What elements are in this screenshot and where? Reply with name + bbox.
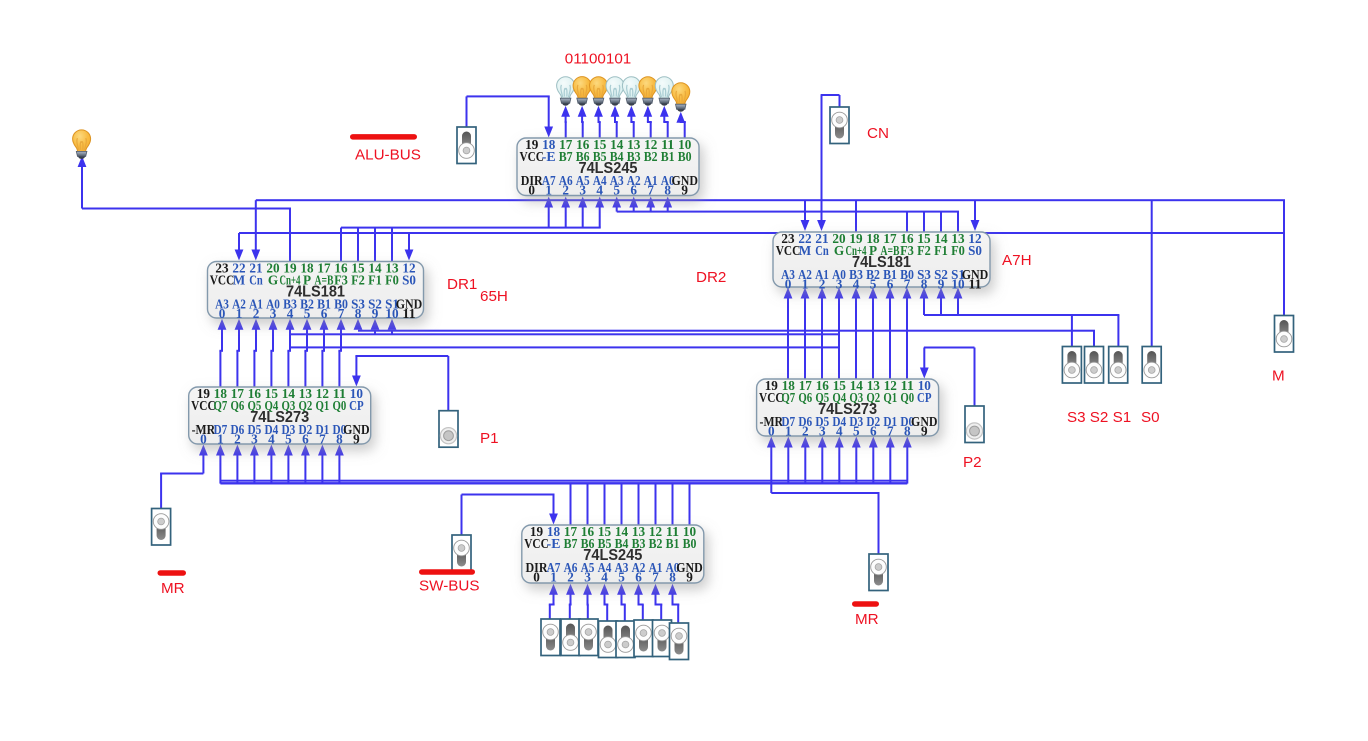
wire DR2 F outputs to U1 A3-A0 (rail y=212): [612, 197, 959, 233]
switch K3 data bit: [616, 621, 635, 658]
svg-text:VCC: VCC: [191, 398, 216, 413]
svg-text:VCC: VCC: [519, 149, 544, 164]
svg-text:S0: S0: [402, 273, 416, 288]
label S0: [1141, 409, 1160, 426]
svg-text:3: 3: [819, 423, 826, 438]
svg-text:4: 4: [836, 423, 843, 438]
svg-text:9: 9: [353, 431, 360, 446]
chip DR1 74LS181 ALU high nibble: [208, 261, 424, 321]
svg-text:Q7: Q7: [214, 398, 228, 413]
svg-text:7: 7: [887, 423, 894, 438]
svg-text:5: 5: [853, 423, 860, 438]
label DR2: [696, 269, 726, 286]
svg-text:Q7: Q7: [781, 390, 795, 405]
wire P2 button to CP: [920, 347, 976, 407]
svg-text:Cn: Cn: [815, 243, 829, 258]
wire carry bulb feed: [78, 156, 291, 262]
svg-text:9: 9: [372, 306, 379, 321]
svg-text:8: 8: [664, 182, 671, 197]
svg-text:M: M: [1272, 368, 1285, 385]
label CN: [867, 125, 889, 142]
wire rail y=347.5: [291, 346, 840, 348]
label M: [1272, 368, 1285, 385]
svg-text:2: 2: [802, 423, 809, 438]
svg-text:B0: B0: [683, 536, 697, 551]
svg-text:1: 1: [236, 306, 243, 321]
svg-text:3: 3: [584, 569, 591, 584]
svg-text:6: 6: [870, 423, 877, 438]
svg-text:8: 8: [904, 423, 911, 438]
svg-text:B2: B2: [649, 536, 663, 551]
wire data switches to U2 A inputs: [549, 584, 680, 623]
switch K2 data bit: [634, 620, 653, 657]
switch S1: [1109, 347, 1128, 384]
svg-text:3: 3: [251, 431, 258, 446]
svg-text:01100101: 01100101: [565, 51, 631, 68]
bulb carry indicator (lit): [73, 130, 91, 159]
svg-text:4: 4: [287, 306, 294, 321]
bulb B0 (on): [672, 83, 690, 112]
svg-text:74LS181: 74LS181: [852, 254, 911, 271]
svg-text:S0: S0: [968, 243, 982, 258]
svg-text:0: 0: [768, 423, 775, 438]
svg-text:74LS273: 74LS273: [250, 409, 309, 426]
svg-text:ALU-BUS: ALU-BUS: [355, 147, 421, 164]
bulb B6 (on): [573, 77, 591, 106]
switch K0 data bit: [670, 623, 689, 660]
wire bus to P1 D inputs: [216, 445, 344, 484]
svg-text:B1: B1: [661, 149, 675, 164]
wire P1 Q outputs to DR1 A,B inputs: [218, 319, 346, 387]
wire M switch riser: [1283, 200, 1285, 315]
switch MR1 master reset P1: [152, 509, 171, 546]
svg-text:Q0: Q0: [333, 398, 347, 413]
svg-text:1: 1: [217, 431, 224, 446]
svg-text:7: 7: [319, 431, 326, 446]
wire SW-BUS switch to U2 -E: [461, 494, 558, 536]
svg-text:CN: CN: [867, 125, 889, 142]
svg-text:MR: MR: [161, 580, 185, 597]
svg-text:7: 7: [904, 276, 911, 291]
svg-text:9: 9: [681, 182, 688, 197]
svg-text:G: G: [834, 243, 844, 258]
label S3 S2 S1: [1067, 409, 1131, 426]
chip P2 74LS273 register: [757, 378, 939, 438]
switch S2: [1085, 347, 1104, 384]
svg-text:S0: S0: [1141, 409, 1160, 426]
chip DR2 74LS181 ALU low nibble: [773, 231, 990, 291]
label DR1: [447, 276, 477, 293]
chip U1 74LS245 ALU bus driver: [517, 137, 699, 197]
svg-text:0: 0: [528, 182, 535, 197]
label SW-BUS with marker: [419, 569, 479, 594]
svg-text:74LS245: 74LS245: [579, 160, 638, 177]
svg-text:F0: F0: [951, 243, 965, 258]
svg-text:DR1: DR1: [447, 276, 477, 293]
svg-text:CP: CP: [917, 390, 932, 405]
wire U1 B outputs to indicator bulbs: [561, 106, 686, 138]
bulb B7 (off): [557, 77, 575, 106]
svg-text:7: 7: [647, 182, 654, 197]
svg-text:VCC: VCC: [759, 390, 784, 405]
svg-text:8: 8: [669, 569, 676, 584]
svg-text:6: 6: [302, 431, 309, 446]
svg-text:B0: B0: [678, 149, 692, 164]
svg-text:5: 5: [613, 182, 620, 197]
label 01100101 bus value: [565, 51, 631, 68]
svg-text:DR2: DR2: [696, 269, 726, 286]
svg-text:A7H: A7H: [1002, 252, 1032, 269]
bulb B3 (off): [622, 77, 640, 106]
wire bus to P2 D inputs: [784, 437, 912, 484]
svg-text:2: 2: [819, 276, 826, 291]
wire U2 B outputs to bus: [570, 484, 691, 525]
svg-text:VCC: VCC: [210, 273, 235, 288]
svg-text:5: 5: [285, 431, 292, 446]
bulb B1 (off): [655, 77, 673, 106]
svg-text:9: 9: [938, 276, 945, 291]
svg-text:4: 4: [596, 182, 603, 197]
label MR2 with marker: [852, 601, 879, 628]
svg-text:3: 3: [579, 182, 586, 197]
svg-text:VCC: VCC: [776, 243, 801, 258]
wire DR1 pin21 Cn drop: [251, 200, 260, 260]
bulb B5 (on): [590, 77, 608, 106]
chip U2 74LS245 switch bus driver: [522, 524, 704, 584]
svg-text:B7: B7: [559, 149, 573, 164]
switch K7 data bit: [541, 619, 560, 656]
svg-text:2: 2: [253, 306, 260, 321]
svg-text:VCC: VCC: [524, 536, 549, 551]
wire DR2 pin12 S0 drop: [971, 200, 980, 231]
svg-text:6: 6: [321, 306, 328, 321]
switch K1 data bit: [653, 620, 672, 657]
svg-text:9: 9: [921, 423, 928, 438]
switch S3: [1062, 347, 1081, 384]
svg-text:11: 11: [968, 276, 981, 291]
svg-text:3: 3: [270, 306, 277, 321]
wire DR2 pin19 Cn+4 riser: [855, 200, 857, 232]
switch S0: [1142, 347, 1161, 384]
svg-text:G: G: [268, 273, 278, 288]
svg-text:11: 11: [402, 306, 415, 321]
label P2: [963, 454, 982, 471]
svg-text:B7: B7: [564, 536, 578, 551]
switch K5 data bit: [579, 619, 598, 656]
svg-text:2: 2: [562, 182, 569, 197]
svg-text:S3 S2 S1: S3 S2 S1: [1067, 409, 1131, 426]
svg-text:10: 10: [385, 306, 399, 321]
svg-text:Q6: Q6: [798, 390, 812, 405]
svg-text:F0: F0: [385, 273, 399, 288]
wire DR2 S3,S2,S1 rail y=315 to switches: [920, 288, 1120, 347]
svg-text:74LS273: 74LS273: [818, 401, 877, 418]
svg-text:0: 0: [533, 569, 540, 584]
label ALU-BUS with marker: [350, 134, 421, 163]
svg-text:M: M: [233, 273, 246, 288]
svg-text:5: 5: [870, 276, 877, 291]
svg-text:1: 1: [802, 276, 809, 291]
svg-text:-E: -E: [542, 149, 556, 164]
svg-text:-E: -E: [547, 536, 561, 551]
wire MR switch to P1 -MR: [160, 445, 208, 509]
label P1: [480, 430, 499, 447]
svg-text:P2: P2: [963, 454, 982, 471]
svg-text:8: 8: [355, 306, 362, 321]
svg-text:7: 7: [652, 569, 659, 584]
svg-text:5: 5: [304, 306, 311, 321]
chip P1 74LS273 register: [189, 386, 371, 446]
svg-text:F1: F1: [368, 273, 382, 288]
svg-text:B2: B2: [644, 149, 658, 164]
svg-text:Cn: Cn: [249, 273, 263, 288]
wire rail y=336.5 DR1 S1: [388, 319, 397, 335]
svg-text:2: 2: [567, 569, 574, 584]
svg-text:74LS181: 74LS181: [286, 284, 345, 301]
wire DR1 F outputs to U1 A7-A4 (rail y=228): [340, 197, 604, 262]
switch CN carry-in: [830, 107, 849, 144]
svg-text:1: 1: [545, 182, 552, 197]
svg-text:0: 0: [200, 431, 207, 446]
svg-text:1: 1: [550, 569, 557, 584]
svg-text:8: 8: [336, 431, 343, 446]
switch ALU-BUS enable: [457, 127, 476, 164]
wire MR switch to P2 -MR: [767, 437, 880, 555]
bulb B2 (on): [639, 77, 657, 106]
wire ALU-BUS switch to U1 -E: [466, 95, 554, 137]
switch K6 data bit: [561, 619, 580, 656]
svg-text:Q0: Q0: [900, 390, 914, 405]
svg-text:74LS245: 74LS245: [583, 547, 642, 564]
svg-text:MR: MR: [855, 611, 879, 628]
svg-text:8: 8: [921, 276, 928, 291]
wire rail y=233: [239, 232, 1285, 234]
wire P1 button to CP: [352, 355, 449, 411]
wire data bus rail (double): [220, 480, 907, 485]
svg-text:5: 5: [618, 569, 625, 584]
svg-text:F2: F2: [351, 273, 365, 288]
svg-text:9: 9: [686, 569, 693, 584]
svg-text:7: 7: [338, 306, 345, 321]
svg-text:4: 4: [601, 569, 608, 584]
svg-text:F2: F2: [917, 243, 931, 258]
switch MR2 master reset P2: [869, 554, 888, 591]
svg-text:10: 10: [951, 276, 965, 291]
switch M mode: [1275, 316, 1294, 353]
wire rail y=334 DR1 S2: [290, 319, 840, 336]
wire rail y=331 DR1 S3 to S2 switch: [354, 319, 1095, 347]
svg-text:4: 4: [853, 276, 860, 291]
wire DR1 pin12 S0 drop: [405, 233, 414, 261]
svg-text:F1: F1: [934, 243, 948, 258]
svg-text:65H: 65H: [480, 288, 508, 305]
svg-text:1: 1: [785, 423, 792, 438]
svg-text:2: 2: [234, 431, 241, 446]
wire S0 switch riser: [1151, 200, 1153, 346]
wire CN switch hook: [817, 94, 840, 231]
switch SW-BUS enable: [452, 535, 471, 572]
button P1 clock pulse: [439, 411, 458, 448]
svg-text:6: 6: [630, 182, 637, 197]
label 65H: [480, 288, 508, 305]
svg-text:B1: B1: [666, 536, 680, 551]
wire DR1 pin22 M drop: [235, 233, 244, 261]
svg-text:6: 6: [635, 569, 642, 584]
wire P2 Q outputs to DR2 A,B inputs: [784, 288, 912, 380]
button P2 clock pulse: [965, 406, 984, 443]
svg-text:0: 0: [785, 276, 792, 291]
wire bus net-M/Cn rail y=200: [256, 199, 1285, 201]
label MR1 with marker: [158, 570, 187, 597]
svg-text:P1: P1: [480, 430, 499, 447]
switch K4 data bit: [599, 621, 618, 658]
label A7H: [1002, 252, 1032, 269]
svg-text:6: 6: [887, 276, 894, 291]
svg-text:4: 4: [268, 431, 275, 446]
svg-text:SW-BUS: SW-BUS: [419, 578, 479, 595]
bulb B4 (off): [606, 77, 624, 106]
svg-text:CP: CP: [349, 398, 364, 413]
svg-text:Q6: Q6: [231, 398, 245, 413]
svg-text:3: 3: [836, 276, 843, 291]
wire DR2 pin22 M drop: [801, 200, 810, 231]
svg-text:0: 0: [219, 306, 226, 321]
svg-text:M: M: [799, 243, 812, 258]
svg-text:Q1: Q1: [883, 390, 897, 405]
svg-text:Q1: Q1: [316, 398, 330, 413]
